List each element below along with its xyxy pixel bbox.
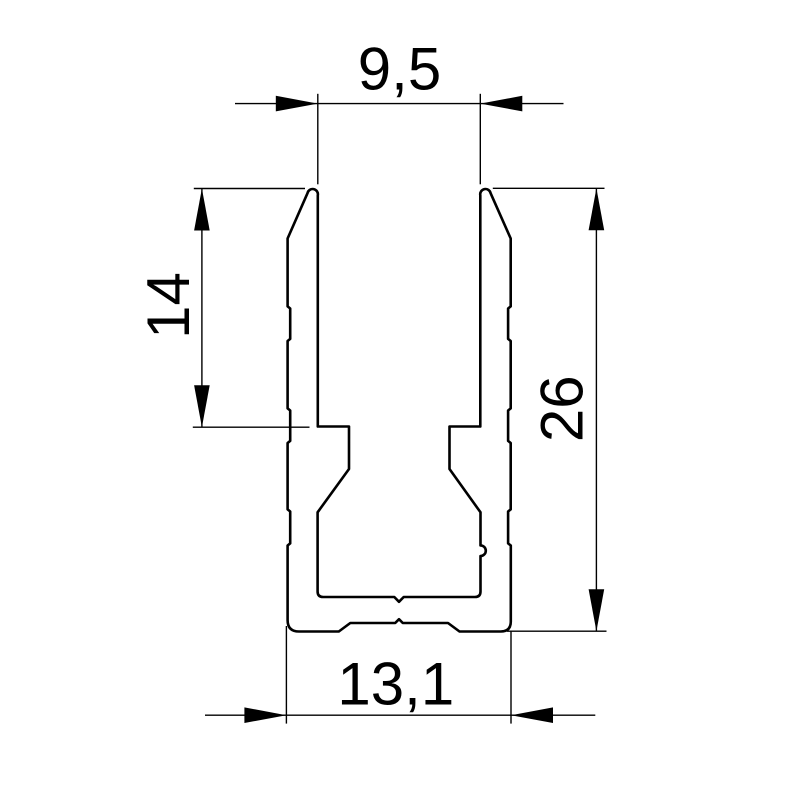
svg-text:9,5: 9,5 — [358, 36, 441, 103]
svg-text:13,1: 13,1 — [337, 650, 454, 717]
svg-text:26: 26 — [528, 375, 595, 442]
svg-text:14: 14 — [135, 272, 202, 339]
